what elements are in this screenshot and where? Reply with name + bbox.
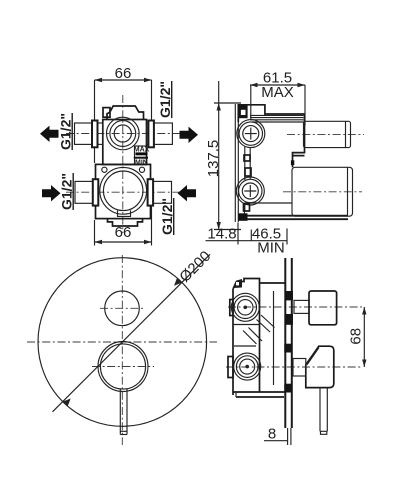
svg-text:MIN: MIN (135, 160, 148, 167)
svg-text:MIN: MIN (257, 239, 285, 256)
svg-text:8: 8 (268, 425, 276, 442)
svg-text:137.5: 137.5 (205, 140, 222, 178)
svg-text:G1/2": G1/2" (159, 198, 175, 235)
svg-text:G1/2": G1/2" (157, 81, 173, 118)
svg-text:MAX: MAX (261, 84, 294, 101)
svg-text:G1/2": G1/2" (59, 173, 75, 210)
svg-text:14.8: 14.8 (207, 225, 236, 242)
svg-text:68: 68 (348, 328, 365, 345)
svg-text:66: 66 (115, 65, 132, 82)
svg-text:G1/2": G1/2" (58, 113, 74, 150)
